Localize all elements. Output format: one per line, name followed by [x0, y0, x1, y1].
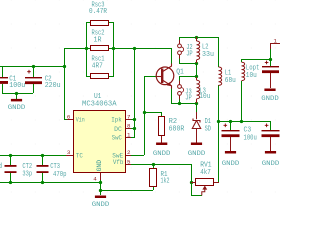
ground R2 [153, 143, 171, 158]
junction CT3 top [41, 154, 44, 157]
svg-text:4R7: 4R7 [92, 62, 103, 70]
svg-text:33p: 33p [22, 170, 32, 178]
junction CT3 bottom [41, 181, 44, 184]
svg-text:1: 1 [274, 37, 278, 44]
wire Q1 emitter to switch node [171, 88, 196, 104]
junction C1 C2 ground [15, 92, 18, 95]
wire R1 leads [153, 164, 155, 190]
junction Rsc right on rail [112, 47, 115, 50]
junction switch node L3 D1 [195, 102, 198, 105]
svg-text:68u: 68u [225, 77, 236, 85]
svg-text:Ipk: Ipk [111, 117, 122, 124]
jumper J3 [178, 81, 192, 103]
svg-text:8: 8 [127, 123, 131, 130]
connector P1 pin 1 [270, 37, 280, 49]
ground C5 [262, 151, 280, 167]
svg-text:1R: 1R [94, 36, 102, 44]
pin 2 SwE [112, 149, 131, 159]
wire D1 anode [196, 103, 198, 112]
junction C3 top [229, 120, 232, 123]
inductor L2 [197, 37, 215, 63]
svg-text:4k7: 4k7 [200, 169, 211, 177]
svg-text:680R: 680R [169, 125, 185, 133]
wire SwC DC Ipk column [131, 48, 135, 138]
junction R1 top [152, 163, 155, 166]
svg-text:JP: JP [185, 95, 192, 103]
svg-text:100u: 100u [244, 135, 257, 143]
wire R2 top [144, 112, 162, 117]
svg-text:0.47R: 0.47R [89, 8, 107, 16]
resistor Rsc2 [91, 30, 109, 51]
svg-text:Q1: Q1 [176, 68, 184, 76]
wire J3 bottom lead [179, 95, 181, 104]
capacitor CT2 [5, 155, 33, 182]
junction CT2 bottom [9, 181, 12, 184]
pin 3 TC [66, 149, 83, 159]
pin 7 Ipk [111, 113, 131, 123]
junction L1 bottom Vout [217, 120, 220, 123]
wire RV1 wiper tie [191, 182, 202, 196]
pin 4 GND [93, 160, 103, 182]
IC U1 MC34063A body [74, 93, 126, 172]
wire Vin column down to pin 6 [64, 66, 70, 120]
pin 6 Vin [67, 113, 85, 123]
wire J2 bottom [179, 55, 196, 64]
wire Rsc parallel left [86, 22, 90, 77]
svg-text:7: 7 [127, 113, 131, 120]
ground D1 [188, 143, 206, 158]
transistor Q1 [156, 64, 184, 89]
pin 8 DC [114, 123, 131, 133]
resistor Rsc3 [89, 1, 109, 25]
junction Rsc left on rail [85, 47, 88, 50]
svg-text:10u: 10u [246, 72, 257, 80]
capacitor C1 [0, 66, 25, 93]
wire TC rail [0, 155, 66, 157]
svg-text:SwC: SwC [112, 134, 122, 141]
junction pins column on rail [133, 47, 136, 50]
svg-text:1k2: 1k2 [161, 178, 170, 186]
junction RV1 left [190, 181, 193, 184]
svg-text:d: d [0, 163, 2, 171]
ground C4 [261, 89, 279, 102]
junction J3 L3 top [195, 75, 198, 78]
svg-text:GNDD: GNDD [222, 160, 240, 167]
wire Rsc parallel right [109, 22, 114, 77]
svg-text:100u: 100u [9, 82, 25, 90]
wire output L1 column [218, 37, 220, 182]
wire R1 bottom to IC ground [100, 190, 153, 192]
junction output node [269, 58, 272, 61]
wire Vout rail [218, 121, 271, 130]
inductor L1 [219, 67, 236, 85]
junction C2 top [32, 65, 35, 68]
ground IC [92, 196, 110, 209]
svg-text:MC34063A: MC34063A [82, 101, 117, 109]
inductor Lopt [242, 62, 260, 121]
svg-text:GNDD: GNDD [188, 150, 206, 157]
junction J3 bottom [178, 102, 181, 105]
wire L2 to J3 node [196, 63, 198, 77]
svg-text:Vin: Vin [76, 117, 85, 124]
wire timing cap ground rail [0, 182, 100, 184]
jumper J2 [178, 40, 193, 59]
wire Vin top rail to Rsc and Q1 collector [64, 48, 172, 66]
wire Lopt top to output pin [241, 59, 270, 62]
potentiometer RV1 [191, 161, 219, 195]
wire J3 top [179, 76, 196, 85]
svg-text:Vfb: Vfb [113, 159, 124, 166]
junction Vin column [63, 65, 66, 68]
wire IC ground pin 4 column [100, 180, 102, 195]
svg-text:C3: C3 [244, 127, 252, 135]
svg-text:DC: DC [114, 126, 122, 133]
svg-text:GNDD: GNDD [261, 95, 279, 102]
capacitor CT3 [37, 155, 67, 182]
resistor Rsc1 [91, 55, 109, 78]
capacitor C2 [25, 66, 61, 93]
capacitor C5 [262, 121, 280, 151]
svg-text:GND: GND [96, 160, 103, 171]
junction L2 top [195, 36, 198, 39]
svg-text:470p: 470p [53, 171, 67, 179]
junction Ipk pin 7 [133, 118, 136, 121]
wire L2 J2 top [179, 37, 219, 44]
svg-text:SD: SD [205, 125, 211, 133]
net label Gnd fragment [0, 163, 2, 171]
wire output pin down [270, 49, 272, 66]
svg-text:GNDD: GNDD [8, 104, 26, 111]
svg-text:5: 5 [127, 159, 131, 166]
svg-text:220u: 220u [45, 82, 61, 90]
svg-text:GNDD: GNDD [92, 201, 110, 208]
junction R2 tap [143, 111, 146, 114]
diode D1 [192, 112, 211, 143]
junction Lopt bottom [240, 120, 243, 123]
capacitor C4 [262, 59, 279, 88]
wire input rail from left edge [0, 66, 64, 68]
svg-text:TC: TC [76, 152, 83, 159]
inductor L3 [197, 77, 211, 103]
resistor R2 [159, 117, 185, 144]
svg-text:GNDD: GNDD [262, 160, 280, 167]
junction DC pin 8 [133, 127, 136, 130]
wire base drive from SwE [131, 76, 157, 156]
pin 1 SwC [112, 132, 131, 142]
svg-text:6: 6 [67, 113, 71, 120]
svg-text:2: 2 [127, 149, 131, 156]
svg-text:3: 3 [67, 149, 71, 156]
svg-text:33u: 33u [202, 51, 214, 59]
ground C3 [222, 151, 240, 167]
capacitor C3 [222, 121, 257, 151]
svg-text:GNDD: GNDD [153, 150, 171, 157]
junction pin 4 ground [99, 181, 102, 184]
junction L2 bottom [195, 62, 198, 65]
wire C1 C2 bottom [2, 93, 33, 99]
ground C1 C2 [8, 99, 26, 111]
resistor R1 [150, 169, 170, 187]
junction CT2 top [9, 154, 12, 157]
svg-text:4: 4 [93, 175, 97, 182]
svg-text:JP: JP [186, 51, 193, 59]
junction pin 4 to R1 return [99, 189, 102, 192]
svg-text:1: 1 [127, 132, 131, 139]
pin 5 Vfb [113, 159, 131, 166]
svg-text:10u: 10u [199, 93, 210, 101]
wire Vfb from pin 5 [131, 164, 192, 182]
svg-text:L2: L2 [202, 43, 209, 51]
